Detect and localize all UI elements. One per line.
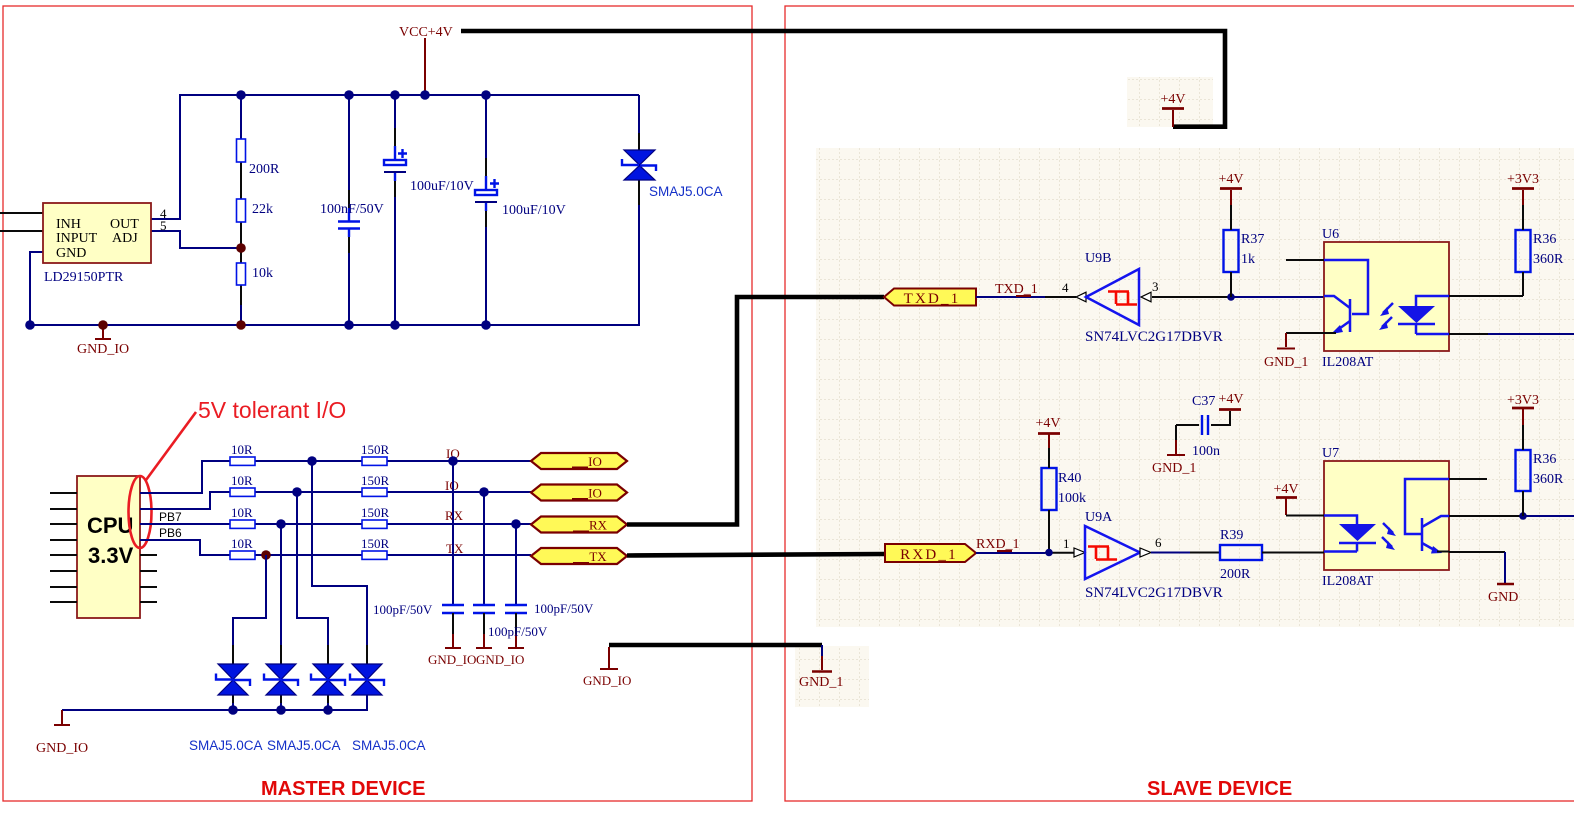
svg-text:150R: 150R [361,473,390,488]
svg-text:200R: 200R [249,162,280,177]
svg-text:PB7: PB7 [159,510,182,524]
svg-text:100pF/50V: 100pF/50V [373,602,433,617]
svg-text:200R: 200R [1220,567,1251,582]
svg-text:100k: 100k [1058,491,1086,506]
svg-text:+4V: +4V [1035,416,1060,431]
svg-text:6: 6 [1155,535,1162,550]
svg-text:GND_IO: GND_IO [77,342,129,357]
svg-text:GND_1: GND_1 [1264,355,1308,370]
svg-text:TX: TX [446,541,464,556]
svg-text:U9A: U9A [1085,510,1113,525]
svg-text:360R: 360R [1533,252,1564,267]
svg-text:10R: 10R [231,536,253,551]
svg-text:INPUT: INPUT [56,231,98,246]
svg-text:SN74LVC2G17DBVR: SN74LVC2G17DBVR [1085,585,1223,601]
svg-text:CPU: CPU [87,513,133,538]
svg-text:+4V: +4V [1160,92,1185,107]
svg-text:10R: 10R [231,442,253,457]
svg-text:GND: GND [56,246,86,261]
svg-text:U9B: U9B [1085,251,1111,266]
svg-text:C37: C37 [1192,394,1215,409]
svg-text:100n: 100n [1192,444,1220,459]
svg-text:PB6: PB6 [159,526,182,540]
svg-text:IL208AT: IL208AT [1322,574,1374,589]
svg-text:R36: R36 [1533,452,1556,467]
svg-text:10R: 10R [231,473,253,488]
svg-text:SMAJ5.0CA: SMAJ5.0CA [352,738,426,753]
svg-text:U7: U7 [1322,446,1339,461]
svg-text:GND_1: GND_1 [799,675,843,690]
svg-text:R36: R36 [1533,232,1556,247]
svg-text:360R: 360R [1533,472,1564,487]
svg-text:GND_IO: GND_IO [36,741,88,756]
svg-text:10k: 10k [252,266,273,281]
svg-text:150R: 150R [361,442,390,457]
svg-text:SLAVE DEVICE: SLAVE DEVICE [1147,778,1292,800]
svg-text:10R: 10R [231,505,253,520]
svg-text:100nF/50V: 100nF/50V [320,202,384,217]
svg-text:RX: RX [445,508,464,523]
svg-text:R37: R37 [1241,232,1264,247]
svg-text:+4V: +4V [1273,482,1298,497]
svg-text:IO: IO [445,478,459,493]
svg-text:150R: 150R [361,536,390,551]
svg-text:IO: IO [588,486,602,501]
svg-text:1k: 1k [1241,252,1255,267]
svg-text:ADJ: ADJ [112,231,138,246]
svg-text:TXD_1: TXD_1 [904,291,961,307]
svg-text:LD29150PTR: LD29150PTR [44,270,124,285]
svg-text:+4V: +4V [1218,172,1243,187]
svg-text:SMAJ5.0CA: SMAJ5.0CA [267,738,341,753]
svg-text:GND_IO: GND_IO [583,673,631,688]
svg-text:SN74LVC2G17DBVR: SN74LVC2G17DBVR [1085,329,1223,345]
svg-text:GND_IO: GND_IO [476,652,524,667]
svg-text:1: 1 [1063,536,1070,551]
svg-text:+4V: +4V [1218,392,1243,407]
svg-text:4: 4 [1062,280,1069,295]
svg-text:RXD_1: RXD_1 [900,547,958,563]
svg-text:100uF/10V: 100uF/10V [410,179,474,194]
svg-text:RX: RX [589,518,608,533]
svg-text:150R: 150R [361,505,390,520]
svg-text:22k: 22k [252,202,273,217]
svg-text:GND_1: GND_1 [1152,461,1196,476]
svg-text:100pF/50V: 100pF/50V [534,601,594,616]
svg-text:IL208AT: IL208AT [1322,355,1374,370]
svg-text:TX: TX [589,549,607,564]
svg-text:3.3V: 3.3V [88,543,134,568]
svg-text:R40: R40 [1058,471,1081,486]
svg-text:IO: IO [588,454,602,469]
svg-text:INH: INH [56,217,81,232]
svg-text:5: 5 [160,218,167,233]
svg-text:GND: GND [1488,590,1518,605]
svg-text:5V tolerant I/O: 5V tolerant I/O [198,397,346,423]
svg-text:RXD_1: RXD_1 [976,537,1020,552]
svg-text:TXD_1: TXD_1 [995,282,1038,297]
svg-text:100uF/10V: 100uF/10V [502,203,566,218]
svg-text:OUT: OUT [110,217,139,232]
svg-text:GND_IO: GND_IO [428,652,476,667]
svg-text:VCC+4V: VCC+4V [399,25,453,40]
svg-text:MASTER DEVICE: MASTER DEVICE [261,778,425,800]
svg-text:U6: U6 [1322,227,1339,242]
svg-text:3: 3 [1152,279,1159,294]
svg-text:+3V3: +3V3 [1507,393,1539,408]
svg-text:SMAJ5.0CA: SMAJ5.0CA [189,738,263,753]
svg-text:SMAJ5.0CA: SMAJ5.0CA [649,184,723,199]
svg-text:+3V3: +3V3 [1507,172,1539,187]
svg-text:100pF/50V: 100pF/50V [488,624,548,639]
svg-text:R39: R39 [1220,528,1243,543]
